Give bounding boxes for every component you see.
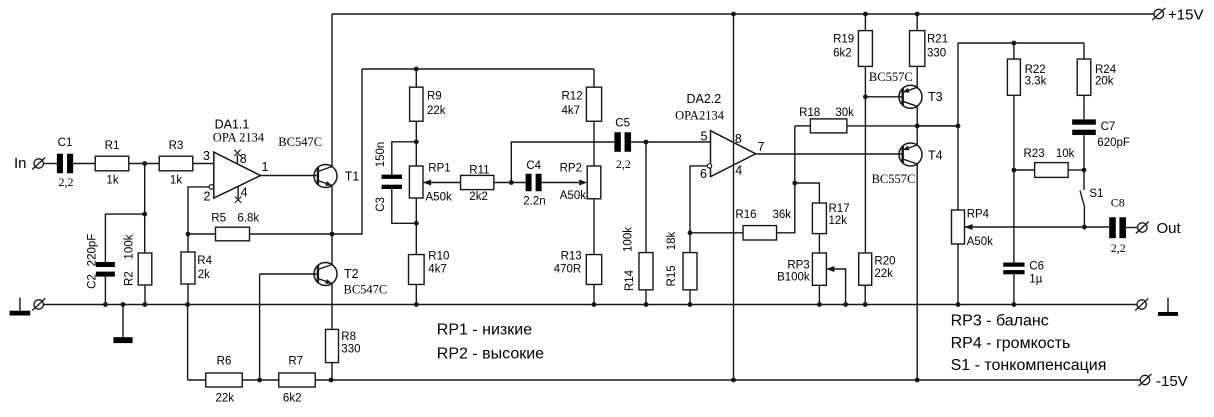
svg-text:12k: 12k (829, 215, 848, 227)
svg-text:S1: S1 (1089, 188, 1103, 200)
svg-text:R21: R21 (927, 33, 948, 45)
svg-text:C4: C4 (526, 160, 541, 172)
svg-text:1k: 1k (106, 175, 118, 187)
svg-text:A50k: A50k (426, 192, 452, 204)
svg-text:RP1 - низкие: RP1 - низкие (437, 322, 532, 339)
svg-text:6.8k: 6.8k (237, 213, 259, 225)
svg-text:R23: R23 (1024, 148, 1045, 160)
svg-text:R15: R15 (666, 265, 678, 286)
svg-text:BC547C: BC547C (344, 283, 388, 297)
svg-text:R19: R19 (833, 33, 854, 45)
svg-text:RP2: RP2 (560, 163, 582, 175)
svg-text:-15V: -15V (1156, 373, 1188, 390)
svg-text:1k: 1k (170, 175, 182, 187)
svg-text:3.3k: 3.3k (1025, 75, 1047, 87)
svg-text:3: 3 (203, 149, 210, 163)
svg-text:R11: R11 (469, 165, 489, 177)
svg-text:620pF: 620pF (1097, 137, 1130, 149)
svg-text:RP3 - баланс: RP3 - баланс (951, 313, 1049, 330)
svg-text:5: 5 (701, 130, 708, 144)
svg-text:7: 7 (758, 140, 765, 154)
svg-text:R6: R6 (217, 356, 232, 368)
svg-text:BC547C: BC547C (278, 135, 322, 149)
svg-text:330: 330 (341, 343, 360, 355)
svg-text:+15V: +15V (1168, 6, 1203, 23)
svg-text:220pF: 220pF (87, 234, 99, 267)
svg-text:C2: C2 (87, 274, 99, 289)
svg-text:R20: R20 (874, 256, 895, 268)
svg-text:T4: T4 (928, 149, 943, 163)
svg-text:T2: T2 (344, 267, 359, 281)
svg-text:2.2n: 2.2n (523, 195, 545, 207)
svg-text:C5: C5 (615, 118, 630, 130)
svg-text:10k: 10k (1056, 148, 1075, 160)
svg-text:1: 1 (262, 160, 269, 174)
svg-text:18k: 18k (666, 231, 678, 250)
svg-text:T1: T1 (345, 170, 360, 184)
svg-text:RP4 - громкость: RP4 - громкость (951, 335, 1071, 352)
svg-text:22k: 22k (427, 105, 446, 117)
svg-text:470R: 470R (554, 263, 582, 275)
svg-text:B100k: B100k (777, 272, 810, 284)
svg-text:R2: R2 (124, 271, 136, 286)
svg-text:4k7: 4k7 (562, 105, 581, 117)
svg-text:1µ: 1µ (1029, 274, 1042, 286)
svg-text:R9: R9 (427, 91, 442, 103)
svg-text:2k: 2k (198, 269, 210, 281)
svg-text:R13: R13 (561, 251, 582, 263)
svg-text:R14: R14 (624, 269, 636, 291)
svg-text:A50k: A50k (560, 190, 586, 202)
svg-text:Out: Out (1157, 220, 1182, 237)
svg-text:BC557C: BC557C (869, 70, 913, 84)
svg-text:BC557C: BC557C (872, 172, 916, 186)
svg-text:C1: C1 (58, 137, 73, 149)
svg-text:R16: R16 (735, 209, 756, 221)
svg-text:6: 6 (700, 167, 707, 181)
svg-text:2,2: 2,2 (59, 175, 74, 189)
svg-text:4: 4 (241, 185, 248, 199)
svg-text:OPA 2134: OPA 2134 (213, 131, 265, 145)
svg-text:4: 4 (735, 163, 742, 177)
svg-text:R4: R4 (197, 255, 212, 267)
svg-text:6k2: 6k2 (283, 393, 302, 405)
svg-text:R3: R3 (169, 140, 184, 152)
svg-text:R10: R10 (428, 251, 449, 263)
svg-text:6k2: 6k2 (833, 47, 852, 59)
svg-text:DA2.2: DA2.2 (687, 92, 722, 106)
svg-text:8: 8 (240, 152, 247, 166)
svg-text:DA1.1: DA1.1 (215, 118, 250, 132)
svg-text:RP1: RP1 (428, 163, 450, 175)
svg-text:C8: C8 (1111, 196, 1125, 210)
svg-text:20k: 20k (1095, 75, 1114, 87)
svg-text:30k: 30k (835, 107, 854, 119)
svg-text:S1 - тонкомпенсация: S1 - тонкомпенсация (951, 357, 1107, 374)
svg-text:RP3: RP3 (787, 259, 809, 271)
svg-text:2,2: 2,2 (1111, 241, 1126, 255)
svg-text:R8: R8 (341, 331, 356, 343)
svg-text:In: In (14, 155, 27, 172)
svg-text:A50k: A50k (967, 236, 993, 248)
svg-text:330: 330 (927, 47, 946, 59)
svg-text:36k: 36k (773, 209, 792, 221)
svg-text:22k: 22k (216, 393, 235, 405)
svg-text:R12: R12 (562, 91, 583, 103)
svg-text:C6: C6 (1029, 261, 1044, 273)
svg-text:C7: C7 (1101, 121, 1116, 133)
svg-text:R17: R17 (829, 203, 850, 215)
svg-text:100k: 100k (124, 234, 136, 259)
svg-text:8: 8 (735, 132, 742, 146)
svg-text:2,2: 2,2 (616, 157, 631, 171)
svg-text:R7: R7 (288, 356, 303, 368)
svg-text:RP4: RP4 (967, 208, 990, 220)
svg-text:OPA2134: OPA2134 (675, 109, 725, 123)
svg-text:150n: 150n (375, 142, 387, 168)
svg-text:R18: R18 (799, 107, 820, 119)
svg-text:RP2 - высокие: RP2 - высокие (437, 345, 544, 362)
svg-text:R5: R5 (211, 213, 226, 225)
svg-text:100k: 100k (623, 227, 635, 252)
svg-text:T3: T3 (928, 90, 943, 104)
svg-text:4k7: 4k7 (428, 263, 447, 275)
svg-text:2: 2 (204, 190, 211, 204)
svg-text:22k: 22k (874, 268, 893, 280)
svg-text:C3: C3 (375, 197, 387, 212)
svg-text:R1: R1 (105, 140, 120, 152)
svg-text:2k2: 2k2 (469, 191, 488, 203)
